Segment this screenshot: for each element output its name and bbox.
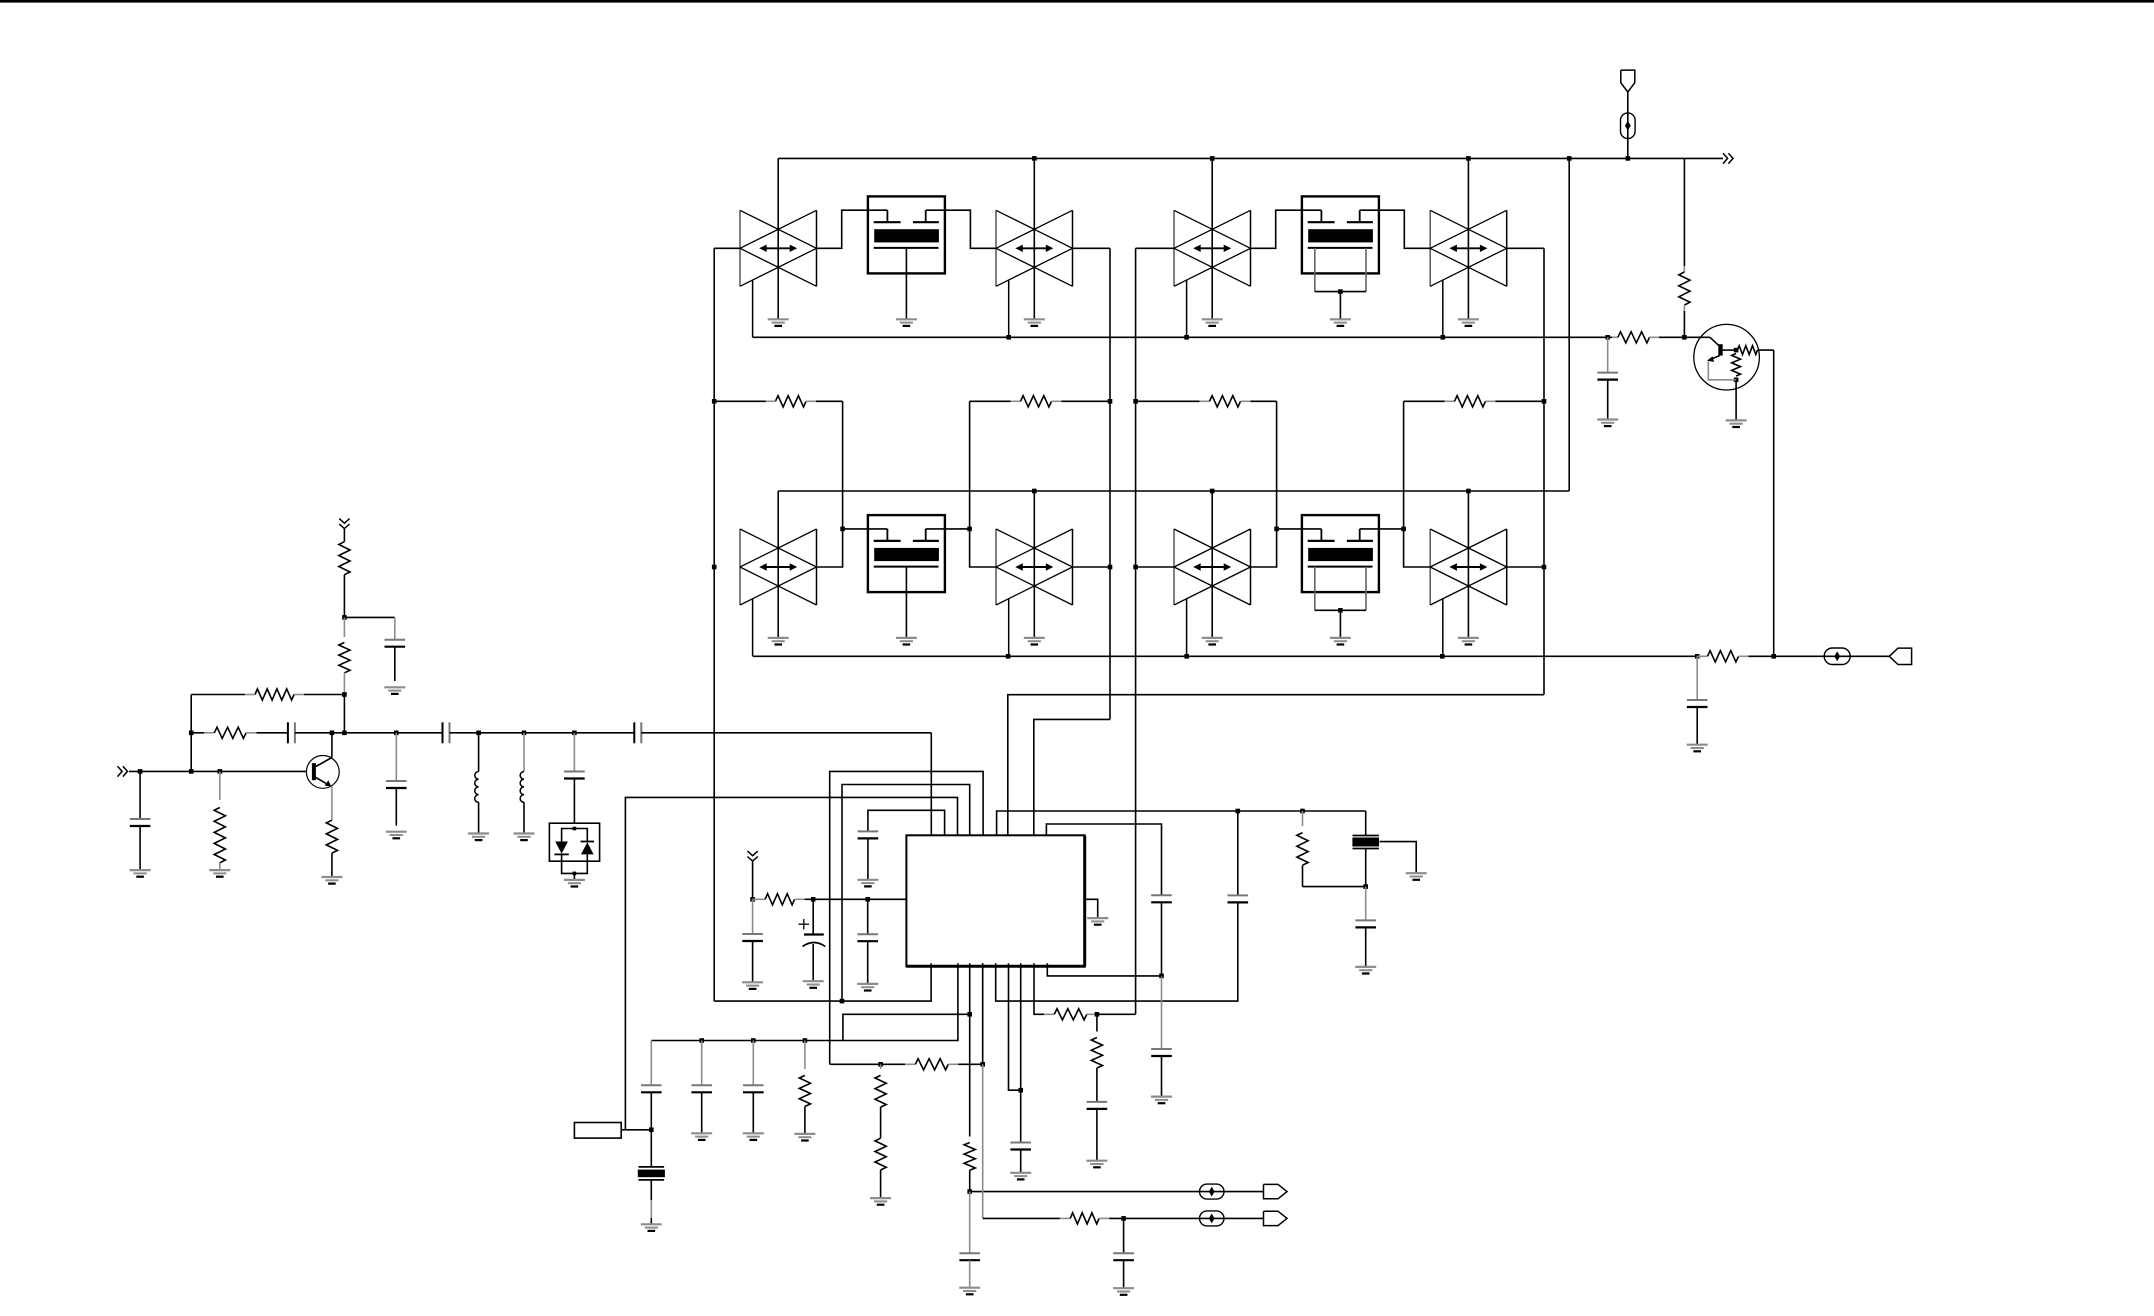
wire C17 stem [1123,1218,1125,1253]
node bus dot 1034.3 row2 [1032,489,1037,494]
wire net 824 line [1046,824,1161,895]
wire C1 lower [394,647,396,681]
wire tag3 cap stem [752,899,754,934]
wire clamp right branch [574,829,587,843]
node out2 dot [1121,1216,1126,1221]
wire mid link [332,732,396,734]
ground varactor 1034.3 row2 [1024,638,1045,645]
node net 1064 dots [878,1062,985,1067]
wire input line [129,770,306,772]
capacitor C12 [1355,920,1376,927]
wire C15 lower [1161,1056,1163,1097]
wire L1-L2 [479,732,524,734]
diode D6 [581,842,594,855]
ground R20 [794,1134,815,1141]
wire C18 lower [1020,1150,1022,1173]
node mid dot [342,731,347,736]
resistor R21 chain [875,1064,886,1138]
tag ANT1 [1621,70,1635,92]
node Q2 A [1734,348,1739,353]
ground varactor 778.2 row1 [768,319,789,326]
resistor R8 internal h [1738,346,1758,355]
node R18 dot [1095,1012,1100,1017]
node L2 dot [522,731,527,736]
connector J3 [1264,1184,1288,1198]
wire tag stem2 [343,529,345,542]
node Q2 B [1734,378,1739,383]
resistor R9 internal v [1732,354,1741,377]
capacitor C6 series [634,722,641,743]
wire D6 down [574,854,587,873]
wire gnd bus [651,963,958,1040]
ground C21 [1687,745,1708,752]
node row2-right gate dot2 [1401,527,1406,532]
resistor R7 IF line [1697,651,1774,662]
ground C20 [1597,420,1618,427]
wire net-C lead [1136,247,1174,249]
IC U1 box [906,835,1085,966]
varactor D3 row1 [1174,210,1251,286]
wire L2 stem [523,733,525,772]
wire net 771 line [830,771,983,1064]
ground varactor 1212.2 row1 [1202,319,1223,326]
wire R11 link [343,695,345,733]
dual-gate MOSFET Q3 (row1 left) [868,196,945,326]
transistor Q1 collector [316,758,332,767]
wire emitter return [1708,362,1736,380]
node bus dot 1569 row1 [1567,156,1572,161]
wire net 797 line [625,797,957,1129]
label box TP1 [574,1123,621,1139]
ground C12 [1355,967,1376,974]
node row2-left gate dot [840,527,845,532]
capacitor C15 [1151,1049,1172,1056]
capacitor C5 [564,772,585,779]
node label dot [649,1128,654,1133]
capacitor C10 electrolytic [803,935,826,947]
wire C1 stem [394,617,396,639]
inductor L1 [475,772,479,803]
node IF dot [1771,654,1776,659]
wire pin1034 line [1034,963,1044,1014]
ground C15 [1151,1097,1172,1104]
ground C3 [386,832,407,839]
wire xtal drop [1365,811,1367,836]
node bus dot 1212.2 row1 [1210,156,1215,161]
node bus dot 1468.4 row2 [1466,489,1471,494]
wire Q1 collector up [331,733,333,758]
wire D4 row2 lower lead [1442,599,1444,656]
ground C7 [130,870,151,877]
wire X2 lower [650,1180,652,1224]
wire row2-right gate right [1360,528,1404,530]
ground L2 [514,834,535,841]
node bus dot 1034.3 row1 [1032,156,1037,161]
node row2 bus dots [1006,654,1700,659]
node Q1 coll dot [330,731,335,736]
wire C16 stem [969,1192,971,1254]
wire D2 row1 lower lead [1008,280,1010,337]
node lamp dot [1626,156,1631,161]
capacitor C10 electrolytic plus [799,919,810,930]
wire net-B lead row2 [1073,566,1110,568]
wire C4 to L1 [450,732,479,734]
capacitor C17 [1113,1253,1134,1260]
arrow RF input [118,766,128,776]
wire net 784 line [842,785,970,1002]
wire varactor column x=1468.4 row2 [1467,491,1469,638]
tag T3 chevrons [747,851,757,861]
wire label link [621,1129,651,1131]
wire xtal line [997,811,1366,835]
capacitor C3 [386,781,407,788]
node feedback dot [342,692,347,697]
resistor R22 chain [875,1138,886,1198]
node L1 dot [476,731,481,736]
node row2-left gate dot2 [967,527,972,532]
wire drop to IC pin1 [930,733,932,836]
wire C12 stem [1365,887,1367,921]
wire net 1001 line [714,963,931,1001]
wire L1 lower [478,802,480,833]
wire X2 upper [650,1130,652,1167]
node net-B dot1 [1108,399,1113,404]
lamp FB4 [1200,1211,1225,1226]
wire R3 drop [1276,401,1278,529]
wire varactor column x=1212.2 row1 [1211,158,1213,319]
transistor Q1 base bar [312,763,316,780]
wire C9 stem [867,899,869,934]
wire row2 lower bus [753,655,1698,657]
wire C21 lower stem [1696,707,1698,745]
wire C3 stem [395,733,397,781]
resistor R20 chain [799,1041,810,1134]
node C5 dot [572,731,577,736]
wire varactor column x=1034.3 row1 [1033,158,1035,319]
wire C7 lower [139,826,141,870]
wire C24 lower [752,1092,754,1133]
resistor R19 chain [1091,1014,1102,1102]
wire net-A vertical [713,248,715,1001]
wire feedback drop [190,695,192,772]
node net 1014 dot [967,1012,972,1017]
wire C13 stem [1237,811,1239,895]
transistor Q1 circle [306,756,339,789]
capacitor C16 [959,1253,980,1260]
ground clamp [564,880,585,887]
wire net-D lead [1507,247,1544,249]
wire row1-right gate right [1360,210,1431,248]
ground C11 [857,880,878,887]
resistor R1 [714,396,842,407]
ground varactor 1468.4 row1 [1458,319,1479,326]
capacitor C23 [691,1085,712,1092]
wire C9 lower [867,941,869,984]
resistor R17 parallel [1297,811,1308,887]
node collector load dot [342,615,347,620]
wire D2 row2 lower lead [1008,599,1010,656]
wire row1 lower bus a [753,336,1608,338]
wire pin 1047 stub [1047,963,1161,976]
resistor R16 [753,894,814,905]
node C14 dot [1159,974,1164,979]
diode clamp D5/D6 box [549,823,599,861]
wire C12 lower [1365,927,1367,967]
node net-B dot2 [1108,565,1113,570]
wire C2 to Q1 node [295,732,332,734]
wire pin1009 stub [1009,963,1021,1090]
crystal X1 [1352,836,1379,849]
wire D1 row1 lower lead [752,280,754,337]
wire C15 stem [1161,976,1163,1049]
varactor D3 row2 [1174,529,1251,605]
ground Q2 [1726,420,1747,427]
ground varactor 778.2 row2 [768,638,789,645]
resistor R3 [1136,396,1277,407]
wire pin970 chain [964,963,975,1191]
resistor R15 emitter [326,820,337,853]
node net-D dot2 [1542,565,1547,570]
resistor R14 long [214,771,225,870]
wire C11 lower [867,838,869,879]
node clamp gnd dot [573,872,577,876]
wire R2 drop [969,401,971,529]
tag T2 down-chevrons [339,519,349,529]
wire clamp gnd stem [573,873,575,880]
capacitor C19 [1087,1102,1108,1109]
node pin1021 dot [1018,1088,1023,1093]
node bus dot 1212.2 row2 [1210,489,1215,494]
wire IF line to lamp [1774,655,1890,657]
node bus dot 1468.4 row1 [1466,156,1471,161]
wire left pin line [813,898,906,900]
wire net-D to IC [1008,695,1544,836]
lamp FB3 [1200,1184,1225,1199]
capacitor C4 series [443,722,450,743]
ground C16 [959,1288,980,1295]
lamp FB1 [1824,648,1850,665]
inductor L2 [520,772,524,803]
wire row1-left gate leads [817,210,888,248]
node row1 bus dots [1006,335,1610,340]
wire C14 lower [1161,902,1163,976]
ground R21 [870,1198,891,1205]
resistor R10 [339,542,350,575]
wire net 1064 line [830,1059,983,1070]
resistor R6 vertical [1679,158,1690,337]
wire row-1 VT top bus [778,157,1723,159]
wire C23 lower [701,1092,703,1133]
node tag3 dot [750,897,755,902]
wire tag stem [1627,92,1629,158]
wire C21 stem [1696,656,1698,700]
node bus dots2 [699,1038,807,1043]
arrow bus right end [1723,153,1733,163]
ground R14 [209,870,230,877]
node xtal dots [1236,809,1305,814]
wire VT drop to row2 [1568,158,1570,491]
wire elco stem [812,899,814,934]
node fb dot 733 [189,731,194,736]
wire D4 row1 lower lead [1442,280,1444,337]
capacitor C14 [1151,895,1172,902]
capacitor C8 [742,934,763,941]
capacitor C24 [743,1085,764,1092]
connector J4 [1264,1211,1288,1225]
node row2-right gate dot [1274,527,1279,532]
wire net-C vertical [1135,248,1137,1014]
varactor D1 row1 [740,210,817,286]
node in dot1 [138,769,143,774]
capacitor C2 series [288,722,295,743]
node C3 dot [394,731,399,736]
ground C24 [743,1133,764,1140]
node net-A dot1 [712,399,717,404]
wire L2 lower [523,802,525,833]
ground C1 [384,687,405,694]
wire varactor column x=778.2 row1 [777,158,779,319]
resistor R12 feedback [191,689,344,700]
capacitor C7 [130,819,151,826]
transistor Q2 emitter [1707,356,1720,362]
wire net-D lead row2 [1507,566,1544,568]
node xtal dot2 [1363,884,1368,889]
ground varactor 1034.3 row1 [1024,319,1045,326]
wire row2-left gate right [926,528,970,530]
wire pin1021 chain [1020,963,1022,1142]
wire IC right stub [1085,899,1098,917]
node in dot3 [218,769,223,774]
node net-A dot2 [712,565,717,570]
node out1 dot [967,1189,972,1194]
wire C6 to IC [641,732,931,734]
ground C9 [857,984,878,991]
wire C19 lower [1096,1109,1098,1161]
wire collector out [1758,350,1774,656]
capacitor C20 [1597,373,1618,380]
wire Q1 emitter down [331,787,333,821]
ground xtal case [1406,873,1427,880]
wire C3 lower [395,788,397,826]
capacitor C21 [1687,700,1708,707]
capacitor C9 [857,934,878,941]
wire tag3 stem [752,861,754,899]
wire out1 line [970,1191,1264,1193]
wire net-B to IC [1034,719,1110,835]
wire bar to node A [1723,349,1736,351]
ground varactor 1212.2 row2 [1202,638,1223,645]
wire net 1014 line [843,1014,970,1040]
top border bar [0,0,2154,3]
node fb dot 771 [189,769,194,774]
varactor D2 row1 [996,210,1073,286]
wire C5 lower [573,779,575,824]
wire C16 lower [969,1260,971,1288]
node net-D dot1 [1542,399,1547,404]
wire row2-left gate leads [817,529,888,567]
transistor Q2 circle [1694,324,1760,390]
wire varactor column x=1034.3 row2 [1033,491,1035,638]
resistor R5 in AGC line [1608,332,1685,343]
ground C18 [1010,1173,1031,1180]
wire x651 chain [650,1041,652,1086]
transistor Q2 base bar [1718,344,1722,355]
wire net-D vertical [1543,248,1545,694]
wire net-B vertical [1109,248,1111,719]
resistor R4 [1404,396,1544,407]
wire x701 chain [701,1041,703,1086]
wire C22 lower [650,1092,652,1130]
resistor R13 [191,727,288,738]
diode D5 [554,842,568,855]
wire L2-C5 [524,732,574,734]
wire row2-left gate right drop [970,529,997,567]
wire varactor column x=778.2 row2 [777,491,779,638]
wire D3 row1 lower lead [1186,280,1188,337]
varactor D4 row2 [1430,529,1507,605]
wire D3 row2 lower lead [1186,599,1188,656]
dual-gate MOSFET Q4 (row1 right) [1302,196,1379,326]
capacitor C11 [858,831,879,838]
wire clamp left branch [562,829,575,842]
wire L1 stem [478,733,480,772]
wire C20 lower stem [1607,380,1609,420]
wire R1 drop [842,401,844,529]
node AGC dot [1682,335,1687,340]
varactor D4 row1 [1430,210,1507,286]
capacitor C13 [1228,895,1249,902]
ground C8 [742,982,763,989]
node clamp entry dot [573,827,577,831]
wire R4 drop [1403,401,1405,529]
wire D5 down [562,854,575,873]
wire to C4 [396,732,442,734]
wire C5 stem [573,733,575,772]
wire x753 chain [752,1041,754,1086]
wire net-B lead [1073,247,1110,249]
wire to C1 [344,616,394,618]
wire row2-right gate right drop [1404,529,1431,567]
crystal X2 [638,1167,665,1180]
wire varactor column x=1468.4 row1 [1467,158,1469,319]
ground varactor 1468.4 row2 [1458,638,1479,645]
varactor D2 row2 [996,529,1073,605]
wire Q2 emitter gnd [1735,380,1737,421]
wire pin983 chain [982,963,984,1218]
ground C10 [803,981,824,988]
ground L1 [468,834,489,841]
resistor R2 [970,396,1110,407]
ground R15 [321,877,342,884]
ground C23 [691,1133,712,1140]
wire row2-right gate leads [1251,529,1322,567]
ground C17 [1113,1288,1134,1295]
node net 1001 dot [840,999,845,1004]
wire base line [1684,336,1710,338]
dual-gate MOSFET Q6 (row2 right) [1302,515,1379,644]
wire row-2 VT top bus [778,490,1569,492]
node net-C dot2 [1133,565,1138,570]
lamp FB2 [1621,113,1636,139]
ground C19 [1086,1161,1107,1168]
wire out2 line [983,1213,1264,1224]
wire varactor column x=1212.2 row2 [1211,491,1213,638]
wire elco lower [812,944,814,981]
dual-gate MOSFET Q5 (row2 left) [868,515,945,644]
node elco dot [811,897,816,902]
wire R10 to node [343,575,345,618]
wire C7 stem [139,771,141,819]
